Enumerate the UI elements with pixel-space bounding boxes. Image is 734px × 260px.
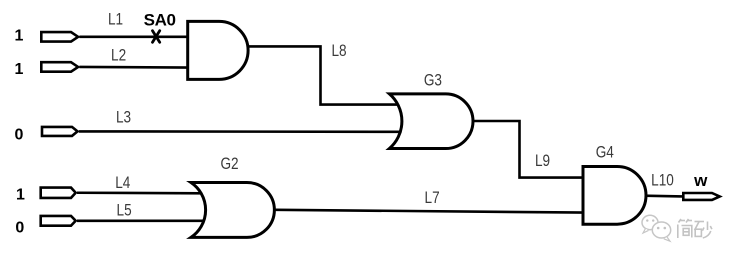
svg-text:L4: L4 [115,173,131,192]
svg-text:L7: L7 [425,189,440,208]
svg-text:0: 0 [15,219,24,236]
svg-text:SA0: SA0 [144,11,176,30]
svg-text:L8: L8 [331,42,346,61]
svg-text:G2: G2 [220,155,238,174]
svg-text:w: w [693,171,708,190]
svg-text:L3: L3 [116,108,131,127]
svg-text:G3: G3 [424,71,442,90]
svg-text:0: 0 [15,127,24,144]
svg-text:1: 1 [16,186,25,203]
svg-text:L10: L10 [651,171,674,190]
svg-text:1: 1 [14,61,23,78]
svg-text:L5: L5 [117,201,132,220]
svg-text:G4: G4 [596,143,615,162]
svg-text:L9: L9 [535,151,550,170]
svg-text:L2: L2 [111,46,126,65]
svg-text:1: 1 [15,27,24,44]
svg-text:L1: L1 [108,10,123,29]
